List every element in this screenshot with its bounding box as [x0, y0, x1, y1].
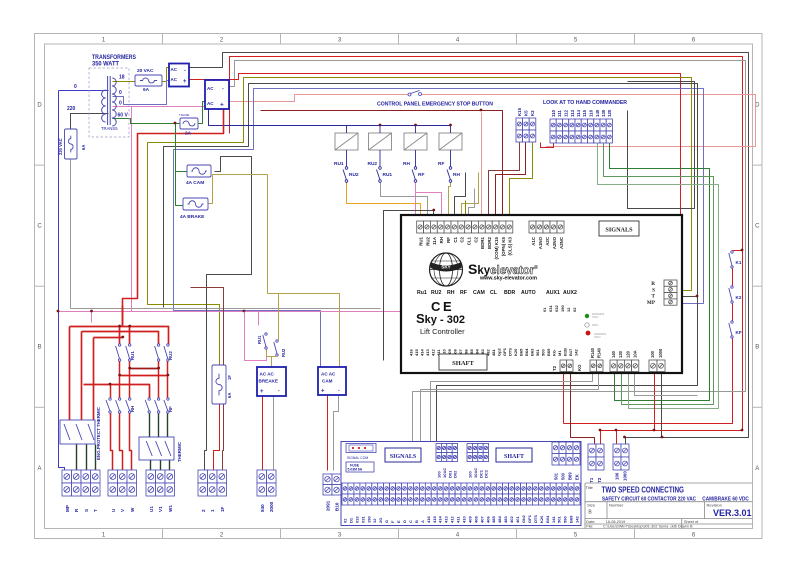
svg-text:RU2: RU2 — [431, 290, 441, 296]
svg-text:K15: K15 — [517, 107, 522, 116]
svg-text:500: 500 — [541, 349, 546, 356]
svg-text:C: C — [408, 520, 413, 523]
svg-text:CL: CL — [490, 290, 498, 296]
svg-text:EK: EK — [575, 474, 580, 480]
svg-text:60 V: 60 V — [118, 113, 129, 119]
svg-text:(COM) K15: (COM) K15 — [494, 236, 499, 259]
svg-text:VER.3.01: VER.3.01 — [713, 508, 752, 518]
svg-text:V1: V1 — [158, 506, 163, 512]
svg-text:RU2: RU2 — [281, 348, 286, 357]
svg-text:220: 220 — [67, 106, 76, 112]
svg-text:LOOK AT TO HAND COMMANDER: LOOK AT TO HAND COMMANDER — [543, 100, 627, 106]
svg-text:T2: T2 — [552, 365, 557, 371]
svg-text:B64: B64 — [524, 348, 529, 356]
svg-text:114: 114 — [576, 109, 581, 117]
svg-text:DC1: DC1 — [478, 469, 483, 478]
svg-text:www.sky-elevator.com: www.sky-elevator.com — [479, 276, 537, 282]
svg-text:MP: MP — [647, 300, 656, 306]
svg-text:483: 483 — [503, 516, 508, 523]
svg-text:K20: K20 — [513, 348, 518, 356]
svg-text:AC AC: AC AC — [321, 372, 336, 377]
svg-text:T: T — [93, 509, 98, 512]
svg-text:KF: KF — [736, 330, 742, 335]
svg-text:RH: RH — [130, 406, 135, 412]
svg-text:500: 500 — [561, 472, 566, 480]
svg-text:RU1: RU1 — [419, 236, 424, 245]
svg-text:409: 409 — [467, 516, 472, 523]
svg-text:C: C — [431, 299, 441, 314]
svg-text:120: 120 — [607, 109, 612, 117]
svg-text:A2C: A2C — [545, 236, 550, 246]
svg-text:B69: B69 — [569, 515, 574, 523]
svg-text:416: 416 — [426, 516, 431, 523]
svg-text:02: 02 — [572, 307, 577, 312]
svg-text:CL1: CL1 — [467, 236, 472, 245]
svg-text:Size: Size — [587, 503, 596, 508]
svg-text:BDR: BDR — [504, 290, 515, 296]
svg-text:220 VAC: 220 VAC — [58, 138, 63, 155]
svg-text:C2: C2 — [460, 236, 465, 242]
svg-text:350 WATT: 350 WATT — [92, 62, 119, 68]
svg-text:Revision: Revision — [707, 503, 722, 508]
svg-text:B: B — [414, 520, 419, 523]
svg-text:5.03M 6A: 5.03M 6A — [348, 468, 363, 472]
svg-text:RF: RF — [418, 172, 424, 178]
svg-text:130: 130 — [601, 109, 606, 117]
svg-text:(CLS) K3: (CLS) K3 — [508, 236, 513, 255]
svg-text:111: 111 — [557, 110, 562, 117]
svg-text:2: 2 — [201, 509, 206, 512]
svg-text:GP1: GP1 — [527, 514, 532, 523]
svg-text:412: 412 — [450, 516, 455, 523]
svg-text:0: 0 — [119, 101, 122, 107]
svg-text:RU1: RU1 — [334, 161, 344, 167]
svg-text:1: 1 — [210, 509, 215, 512]
svg-text:D02: D02 — [453, 470, 458, 478]
svg-text:10A: 10A — [633, 350, 638, 358]
svg-text:11A: 11A — [432, 236, 437, 245]
svg-text:130: 130 — [618, 350, 623, 358]
svg-text:140: 140 — [611, 350, 616, 358]
svg-text:01: 01 — [542, 307, 547, 312]
svg-text:AUX1: AUX1 — [546, 290, 560, 296]
svg-text:K5: K5 — [524, 110, 529, 116]
svg-text:TRANSFORMERS: TRANSFORMERS — [92, 55, 136, 61]
svg-text:RF: RF — [438, 161, 444, 167]
svg-text:BDR1: BDR1 — [480, 236, 485, 249]
svg-text:Lift Controller: Lift Controller — [420, 327, 465, 336]
svg-text:6A: 6A — [143, 87, 150, 93]
svg-text:Title: Title — [586, 485, 594, 490]
svg-text:M1: M1 — [557, 350, 562, 356]
svg-text:16-08-2019: 16-08-2019 — [606, 520, 625, 524]
svg-text:DTS: DTS — [508, 348, 513, 356]
svg-text:SIGNAL COM: SIGNAL COM — [347, 456, 368, 460]
svg-text:CAM: CAM — [322, 379, 333, 384]
svg-text:115: 115 — [582, 109, 587, 117]
svg-text:411: 411 — [456, 516, 461, 523]
svg-text:W1: W1 — [168, 505, 173, 512]
svg-text:481: 481 — [491, 349, 496, 356]
svg-text:0: 0 — [74, 84, 77, 90]
svg-text:031: 031 — [548, 305, 553, 312]
svg-text:C: C — [755, 224, 760, 230]
svg-text:B: B — [37, 345, 41, 351]
svg-text:THERMIC: THERMIC — [177, 441, 182, 462]
svg-text:413: 413 — [444, 516, 449, 523]
svg-text:D: D — [37, 103, 42, 109]
svg-text:D: D — [402, 520, 407, 523]
svg-text:K3: K3 — [530, 110, 535, 116]
svg-text:RU1: RU1 — [257, 335, 262, 344]
svg-text:840: 840 — [260, 504, 265, 512]
svg-text:1000: 1000 — [658, 348, 663, 358]
svg-text:+: + — [220, 102, 224, 109]
svg-text:ONLY: ONLY — [592, 315, 599, 319]
svg-text:0: 0 — [119, 90, 122, 96]
svg-text:501: 501 — [554, 472, 559, 480]
svg-text:415: 415 — [414, 349, 419, 356]
svg-text:ENG.PROTECT THERMIC: ENG.PROTECT THERMIC — [96, 406, 101, 460]
svg-text:DTS: DTS — [533, 515, 538, 523]
svg-text:S: S — [652, 287, 655, 293]
svg-text:2091: 2091 — [326, 500, 331, 511]
svg-text:4A CAM: 4A CAM — [186, 180, 204, 186]
svg-text:561: 561 — [535, 349, 540, 356]
svg-text:100: 100 — [650, 350, 655, 358]
svg-text:408: 408 — [473, 516, 478, 523]
svg-text:MP: MP — [65, 505, 70, 512]
svg-text:410: 410 — [462, 516, 467, 523]
svg-text:+: + — [183, 79, 187, 85]
svg-text:BDR2: BDR2 — [487, 236, 492, 249]
svg-text:+: + — [321, 389, 325, 395]
svg-text:AC: AC — [207, 86, 214, 91]
svg-text:DC2: DC2 — [484, 469, 489, 478]
svg-text:B10: B10 — [335, 502, 340, 511]
svg-text:T: T — [652, 294, 656, 300]
svg-text:T2: T2 — [597, 477, 602, 483]
svg-text:416: 416 — [409, 349, 414, 356]
svg-text:414: 414 — [438, 516, 443, 523]
svg-text:6A: 6A — [227, 393, 232, 398]
svg-text:RF: RF — [446, 237, 451, 243]
svg-text:RU2: RU2 — [368, 161, 378, 167]
svg-text:407: 407 — [479, 516, 484, 523]
svg-text:6A: 6A — [81, 145, 86, 150]
svg-text:02: 02 — [343, 518, 348, 523]
svg-text:RU1: RU1 — [383, 172, 393, 178]
svg-text:A2NC: A2NC — [559, 236, 564, 249]
svg-text:412: 412 — [431, 349, 436, 356]
svg-text:A: A — [420, 520, 425, 523]
svg-text:B04: B04 — [545, 515, 550, 523]
svg-text:Sheet of: Sheet of — [684, 520, 699, 524]
svg-text:484: 484 — [497, 516, 502, 523]
svg-text:A2NO: A2NO — [552, 236, 557, 249]
svg-text:-: - — [184, 68, 186, 74]
svg-text:B63: B63 — [530, 348, 535, 356]
svg-text:100: 100 — [437, 471, 442, 478]
svg-text:B69: B69 — [546, 348, 551, 356]
svg-text:AC AC: AC AC — [260, 372, 275, 377]
svg-text:Number: Number — [609, 503, 624, 508]
svg-text:RU2: RU2 — [168, 351, 173, 360]
svg-text:AC: AC — [207, 101, 214, 106]
svg-text:AUTO: AUTO — [521, 290, 536, 296]
svg-text:402: 402 — [509, 516, 514, 523]
svg-text:A: A — [37, 466, 41, 472]
svg-text:100: 100 — [468, 471, 473, 478]
svg-text:CAM: CAM — [473, 290, 485, 296]
svg-text:12: 12 — [566, 307, 571, 312]
svg-text:501: 501 — [557, 516, 562, 523]
svg-text:10AC: 10AC — [473, 468, 478, 478]
svg-text:File:: File: — [586, 525, 593, 529]
svg-text:20 VAC: 20 VAC — [137, 68, 154, 74]
svg-text:120: 120 — [625, 350, 630, 358]
svg-text:Gp2: Gp2 — [497, 347, 502, 356]
svg-text:RU1: RU1 — [130, 351, 135, 360]
svg-text:2G: 2G — [378, 518, 383, 523]
svg-text:414: 414 — [420, 349, 425, 356]
svg-text:K1: K1 — [736, 260, 742, 265]
svg-text:B17: B17 — [568, 348, 573, 356]
svg-text:SHAFT: SHAFT — [504, 454, 524, 460]
svg-text:10AC: 10AC — [442, 468, 447, 478]
svg-text:T1: T1 — [589, 477, 594, 483]
svg-text:E: E — [396, 520, 401, 523]
svg-text:1000: 1000 — [623, 471, 628, 481]
svg-text:142: 142 — [575, 516, 580, 523]
svg-text:K2: K2 — [736, 295, 742, 300]
svg-text:B1B: B1B — [563, 348, 568, 356]
svg-text:RH: RH — [439, 237, 444, 243]
svg-text:ONLY: ONLY — [594, 335, 601, 339]
svg-text:R: R — [651, 281, 655, 287]
svg-text:T3H20E: T3H20E — [179, 113, 189, 117]
svg-text:SIGNALS: SIGNALS — [605, 227, 633, 234]
svg-text:4A BRAKE: 4A BRAKE — [180, 214, 205, 220]
svg-text:031: 031 — [360, 516, 365, 523]
svg-text:1F: 1F — [227, 375, 232, 380]
svg-text:KG: KG — [552, 350, 557, 356]
svg-text:112: 112 — [564, 109, 569, 117]
svg-text:18: 18 — [119, 75, 125, 81]
svg-text:2A: 2A — [185, 131, 192, 137]
svg-text:C2: C2 — [473, 236, 478, 242]
svg-text:G: G — [384, 520, 389, 523]
svg-text:Date:: Date: — [586, 520, 595, 524]
svg-text:S: S — [84, 509, 89, 512]
svg-text:TRANS5: TRANS5 — [101, 126, 118, 131]
svg-text:100: 100 — [615, 472, 620, 480]
svg-text:GP1: GP1 — [502, 347, 507, 356]
svg-text:RF: RF — [168, 406, 173, 412]
svg-text:-: - — [222, 86, 224, 92]
svg-text:032: 032 — [354, 516, 359, 523]
svg-text:12: 12 — [372, 518, 377, 523]
svg-text:113: 113 — [570, 109, 575, 117]
svg-text:413: 413 — [425, 349, 430, 356]
svg-text:SIGNALS: SIGNALS — [390, 454, 417, 460]
svg-text:Gb2: Gb2 — [521, 514, 526, 523]
svg-text:RF: RF — [460, 290, 467, 296]
svg-text:190: 190 — [366, 516, 371, 523]
svg-text:R140: R140 — [597, 347, 602, 358]
svg-text:B65: B65 — [519, 348, 524, 356]
svg-text:116: 116 — [589, 109, 594, 117]
svg-text:C: C — [37, 224, 42, 230]
svg-text:AUX2: AUX2 — [563, 290, 577, 296]
svg-text:A1NO: A1NO — [538, 236, 543, 249]
svg-text:Sky - 302: Sky - 302 — [416, 311, 465, 326]
svg-text:WRG: WRG — [592, 323, 598, 327]
svg-text:1F: 1F — [220, 506, 225, 512]
svg-text:406: 406 — [485, 516, 490, 523]
svg-text:SKY: SKY — [441, 265, 450, 270]
svg-text:032: 032 — [554, 305, 559, 312]
svg-text:590: 590 — [563, 516, 568, 523]
svg-text:B69: B69 — [568, 472, 573, 480]
svg-text:C:\Users\Win7\Desktop\301-302: C:\Users\Win7\Desktop\301-302 Sema .ddb … — [603, 525, 693, 529]
svg-text:A1C: A1C — [531, 236, 536, 246]
svg-text:AC: AC — [171, 67, 178, 72]
svg-text:C1: C1 — [453, 236, 458, 242]
svg-text:SHAFT: SHAFT — [452, 360, 474, 367]
svg-text:AC: AC — [171, 77, 178, 82]
svg-text:2000: 2000 — [269, 501, 274, 512]
svg-text:RH: RH — [447, 290, 455, 296]
svg-text:110: 110 — [551, 109, 556, 117]
svg-text:401: 401 — [515, 516, 520, 523]
svg-text:+: + — [260, 389, 264, 395]
svg-text:(OPN) K5: (OPN) K5 — [501, 236, 506, 256]
svg-text:U1: U1 — [149, 506, 154, 512]
svg-text:B: B — [755, 345, 759, 351]
svg-text:190: 190 — [560, 305, 565, 312]
svg-text:R140: R140 — [590, 347, 595, 358]
svg-text:RH: RH — [453, 172, 460, 178]
svg-text:Ru1: Ru1 — [417, 290, 427, 296]
svg-text:BREAKE: BREAKE — [259, 379, 278, 384]
svg-text:W: W — [130, 507, 135, 512]
svg-text:141: 141 — [551, 516, 556, 523]
svg-text:CONTROL PANEL EMERGENCY STOP: CONTROL PANEL EMERGENCY STOP BUTTON — [377, 102, 493, 108]
svg-text:D1: D1 — [348, 517, 353, 523]
svg-text:RU2: RU2 — [349, 172, 359, 178]
svg-text:TWO SPEED CONNECTING: TWO SPEED CONNECTING — [602, 485, 685, 495]
svg-text:A: A — [755, 466, 759, 472]
svg-text:D01: D01 — [447, 470, 452, 478]
svg-text:RU2: RU2 — [425, 236, 430, 245]
svg-text:415: 415 — [432, 516, 437, 523]
svg-text:RH: RH — [403, 161, 410, 167]
svg-text:140: 140 — [595, 109, 600, 117]
svg-text:KG: KG — [577, 364, 582, 371]
svg-text:142: 142 — [574, 349, 579, 356]
svg-text:485: 485 — [491, 516, 496, 523]
svg-text:E: E — [443, 299, 452, 314]
svg-text:K20: K20 — [539, 515, 544, 523]
